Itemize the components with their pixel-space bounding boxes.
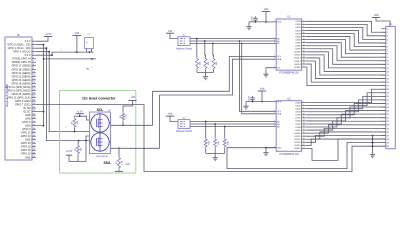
svg-text:6: 6 [274, 125, 275, 127]
svg-text:LED4: LED4 [295, 115, 301, 117]
svg-text:2: 2 [274, 110, 275, 112]
svg-text:9: 9 [33, 68, 34, 70]
svg-text:15: 15 [303, 129, 305, 131]
svg-text:10: 10 [33, 71, 35, 73]
svg-text:23: 23 [33, 117, 35, 119]
svg-text:LED14: LED14 [294, 145, 301, 147]
svg-text:16: 16 [303, 132, 305, 134]
svg-text:27: 27 [33, 131, 35, 133]
svg-text:Vdd: Vdd [168, 113, 173, 116]
svg-text:28: 28 [33, 135, 35, 137]
svg-text:18: 18 [303, 138, 305, 140]
svg-text:20: 20 [303, 63, 305, 65]
svg-text:15: 15 [303, 47, 305, 49]
svg-text:LED6: LED6 [295, 121, 301, 123]
svg-text:25: 25 [33, 124, 35, 126]
svg-text:31: 31 [33, 145, 35, 147]
svg-text:LED2: LED2 [295, 109, 301, 111]
svg-text:7: 7 [33, 61, 34, 63]
svg-text:U2: U2 [287, 96, 291, 100]
svg-text:SCL: SCL [277, 56, 281, 58]
svg-text:32: 32 [33, 149, 35, 151]
svg-text:3: 3 [274, 113, 275, 115]
svg-text:7: 7 [303, 23, 304, 25]
svg-text:20: 20 [33, 107, 35, 109]
svg-text:Vdd: Vdd [125, 163, 130, 166]
svg-text:21: 21 [303, 66, 305, 68]
svg-text:11: 11 [303, 35, 305, 37]
svg-text:13: 13 [33, 82, 35, 84]
svg-text:19: 19 [33, 103, 35, 105]
svg-text:12: 12 [303, 38, 305, 40]
svg-text:4: 4 [274, 42, 275, 44]
svg-text:33: 33 [33, 152, 35, 154]
svg-text:I2c level converter: I2c level converter [82, 96, 116, 100]
svg-text:6: 6 [303, 101, 304, 103]
svg-text:8: 8 [33, 64, 34, 66]
svg-text:SDA: SDA [104, 161, 112, 165]
svg-text:20: 20 [303, 144, 305, 146]
svg-text:10K: 10K [208, 140, 210, 144]
svg-text:+3.3V: +3.3V [66, 150, 73, 153]
svg-text:←: ← [74, 50, 76, 53]
svg-text:14: 14 [33, 86, 35, 88]
svg-text:3: 3 [33, 47, 34, 49]
svg-text:11: 11 [303, 117, 305, 119]
svg-text:LED13: LED13 [294, 142, 301, 144]
svg-text:29: 29 [33, 138, 35, 140]
svg-text:Vdd: Vdd [168, 30, 173, 33]
svg-text:5: 5 [274, 55, 275, 57]
svg-text:LED9: LED9 [295, 130, 301, 132]
svg-text:10K: 10K [200, 61, 202, 65]
svg-text:LED1: LED1 [295, 24, 301, 26]
svg-text:7: 7 [303, 104, 304, 106]
svg-text:Vdd: Vdd [260, 87, 265, 91]
svg-text:4: 4 [33, 50, 34, 52]
svg-text:+3.3V: +3.3V [45, 32, 52, 36]
svg-text:LED4: LED4 [295, 33, 301, 35]
svg-text:3: 3 [274, 40, 275, 42]
svg-text:17: 17 [303, 135, 305, 137]
svg-text:21: 21 [33, 110, 35, 112]
svg-text:LED0: LED0 [295, 102, 301, 104]
svg-text:U1: U1 [287, 15, 291, 19]
svg-text:10: 10 [303, 114, 305, 116]
svg-text:LED1: LED1 [295, 105, 301, 107]
svg-text:LED10: LED10 [294, 133, 301, 135]
svg-text:22: 22 [33, 114, 35, 116]
svg-text:34: 34 [33, 156, 35, 158]
svg-text:A2: A2 [277, 125, 279, 128]
svg-text:5: 5 [33, 54, 34, 56]
svg-text:5V: 5V [86, 69, 89, 71]
svg-text:10K: 10K [227, 140, 229, 144]
svg-text:4.7K: 4.7K [122, 160, 124, 165]
svg-text:BSS138PW: BSS138PW [96, 156, 108, 158]
svg-text:1: 1 [33, 40, 34, 42]
svg-text:LED12: LED12 [294, 139, 301, 141]
svg-text:19: 19 [303, 60, 305, 62]
svg-text:10K: 10K [81, 147, 83, 151]
svg-text:A2: A2 [277, 42, 279, 45]
svg-text:5: 5 [274, 123, 275, 125]
svg-text:11: 11 [33, 75, 35, 77]
svg-text:LED10: LED10 [294, 52, 301, 54]
svg-text:10K: 10K [216, 61, 218, 65]
svg-text:LED14: LED14 [294, 64, 301, 66]
svg-text:14: 14 [303, 44, 305, 46]
svg-text:18: 18 [303, 57, 305, 59]
svg-text:LED12: LED12 [294, 58, 301, 60]
svg-text:6: 6 [303, 20, 304, 22]
svg-text:15: 15 [33, 89, 35, 91]
svg-text:GND: GND [277, 148, 282, 150]
svg-text:9: 9 [303, 110, 304, 112]
svg-text:LED6: LED6 [295, 39, 301, 41]
svg-text:PCA9685PW,118: PCA9685PW,118 [279, 72, 299, 75]
svg-text:+3.3V: +3.3V [77, 110, 84, 113]
svg-text:6: 6 [33, 57, 34, 59]
svg-text:+: + [86, 41, 88, 45]
svg-text:100nF: 100nF [251, 15, 253, 21]
svg-text:16: 16 [33, 93, 35, 95]
svg-text:8: 8 [303, 26, 304, 28]
svg-text:24: 24 [33, 121, 35, 123]
svg-text:LED3: LED3 [295, 30, 301, 32]
svg-text:13: 13 [303, 123, 305, 125]
svg-text:Address Select: Address Select [176, 47, 192, 50]
svg-text:↓: ↓ [65, 126, 66, 129]
svg-text:10K: 10K [77, 120, 79, 124]
svg-text:12: 12 [303, 120, 305, 122]
svg-text:LED11: LED11 [295, 136, 302, 138]
svg-text:10K: 10K [218, 140, 220, 144]
svg-text:10K: 10K [208, 61, 210, 65]
svg-text:4: 4 [274, 120, 275, 122]
svg-text:LED13: LED13 [294, 61, 301, 63]
svg-text:21: 21 [303, 147, 305, 149]
svg-text:↓: ↓ [91, 65, 93, 69]
svg-text:LED7: LED7 [295, 124, 301, 126]
svg-text:←: ← [60, 47, 63, 51]
svg-text:LED5: LED5 [295, 36, 301, 38]
svg-text:17: 17 [303, 54, 305, 56]
svg-text:Address Select: Address Select [176, 130, 192, 133]
svg-text:LED15: LED15 [294, 67, 301, 69]
svg-text:GND: GND [25, 156, 31, 159]
svg-text:14: 14 [303, 126, 305, 128]
svg-text:100nF: 100nF [248, 95, 250, 101]
svg-text:30: 30 [33, 142, 35, 144]
svg-text:8: 8 [303, 107, 304, 109]
svg-text:LED11: LED11 [295, 55, 302, 57]
svg-text:Vdd: Vdd [75, 31, 80, 35]
svg-text:Vdd: Vdd [131, 96, 136, 99]
svg-text:Raspberry Pi B+ GPIO: Raspberry Pi B+ GPIO [6, 84, 9, 107]
svg-text:16: 16 [303, 51, 305, 53]
svg-text:LED7: LED7 [295, 42, 301, 44]
svg-text:LED8: LED8 [295, 127, 301, 129]
svg-text:VDD: VDD [277, 101, 282, 103]
svg-text:13: 13 [303, 41, 305, 43]
svg-text:LED8: LED8 [295, 46, 301, 48]
svg-text:17: 17 [33, 96, 35, 98]
svg-text:LED15: LED15 [294, 148, 301, 150]
svg-text:12: 12 [33, 79, 35, 81]
svg-text:LED0: LED0 [295, 21, 301, 23]
svg-text:6: 6 [274, 58, 275, 60]
svg-text:LED9: LED9 [295, 49, 301, 51]
svg-text:PCA9685PW,118: PCA9685PW,118 [279, 153, 299, 156]
svg-text:19: 19 [303, 141, 305, 143]
svg-text:SCL: SCL [97, 108, 104, 112]
svg-text:Vdd: Vdd [374, 13, 379, 17]
svg-text:Vdd: Vdd [264, 7, 269, 11]
svg-text:LED5: LED5 [295, 118, 301, 120]
svg-text:18: 18 [33, 100, 35, 102]
svg-text:LED2: LED2 [295, 27, 301, 29]
svg-text:VDD: VDD [277, 22, 282, 24]
svg-text:2: 2 [33, 43, 34, 45]
svg-text:4.7K: 4.7K [126, 114, 128, 119]
svg-text:9: 9 [303, 29, 304, 31]
svg-text:2: 2 [274, 37, 275, 39]
svg-text:10: 10 [303, 32, 305, 34]
svg-text:26: 26 [33, 128, 35, 130]
svg-text:LED3: LED3 [295, 112, 301, 114]
